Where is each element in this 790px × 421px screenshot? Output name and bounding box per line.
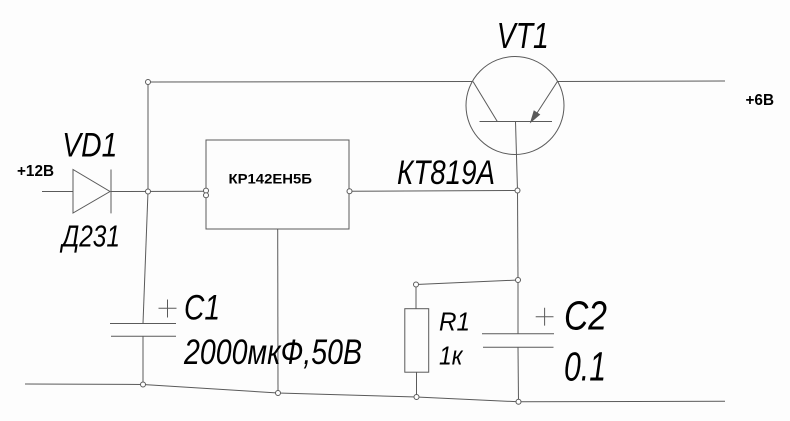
- svg-text:2000мкФ,50В: 2000мкФ,50В: [183, 332, 362, 372]
- wire: top rail right segment: [557, 80, 725, 83]
- wire: transistor base-bar down through circle to output node: [516, 122, 518, 191]
- wire: C2 bottom plate to bottom rail: [517, 347, 520, 402]
- node: diode junction: [146, 189, 151, 194]
- node: R1 top: [414, 282, 419, 287]
- resistor R1 body: [405, 309, 429, 373]
- node: bottom rail / C2: [516, 399, 521, 404]
- wire: R1 node slant to emitter line node: [416, 280, 518, 285]
- wire: output node down to R1/C2 node: [517, 191, 520, 281]
- svg-text:+6В: +6В: [746, 92, 775, 109]
- node: emitter line / R1 slant junction: [516, 278, 521, 283]
- transistor VT1 emitter slant: [532, 82, 558, 122]
- transistor VT1 collector slant: [473, 82, 497, 122]
- transistor VT1 emitter arrow: [531, 111, 540, 122]
- wire: diode junction down to C1 top plate: [143, 192, 148, 324]
- wire: bottom rail: [25, 384, 725, 402]
- wire: diode cathode to regulator input: [111, 190, 207, 192]
- svg-text:+12В: +12В: [17, 163, 54, 180]
- node: regulator input pin upper: [204, 188, 209, 193]
- node: top rail / left drop junction: [146, 80, 151, 85]
- transistor VT1 base bar: [480, 121, 553, 123]
- svg-text:C2: C2: [564, 293, 607, 339]
- capacitor C1 polarity plus: [159, 300, 177, 318]
- node: bottom rail / C1: [141, 382, 146, 387]
- capacitor C2 bottom plate: [483, 346, 554, 348]
- wire: R1 top node to resistor body: [415, 285, 417, 309]
- diode VD1: [73, 170, 111, 214]
- wire: resistor body to bottom rail: [416, 372, 418, 397]
- svg-text:Д231: Д231: [60, 218, 120, 253]
- svg-text:VT1: VT1: [497, 15, 549, 56]
- regulator U1 box КР142ЕН5Б: [206, 140, 349, 229]
- svg-text:КТ819А: КТ819А: [397, 154, 495, 192]
- svg-text:R1: R1: [439, 309, 470, 337]
- capacitor C1 bottom plate: [111, 335, 176, 337]
- capacitor C2 polarity plus: [536, 308, 554, 326]
- transistor VT1 body circle: [466, 57, 564, 155]
- node: bottom rail / R1: [414, 395, 419, 400]
- wire: node to C2 top plate: [517, 280, 519, 334]
- wire: left vertical from top rail to diode junction: [147, 82, 149, 192]
- svg-text:VD1: VD1: [62, 127, 117, 165]
- wire: +12V input to diode anode: [42, 191, 73, 193]
- capacitor C1 top plate: [110, 323, 176, 325]
- wire: regulator output to transistor emitter node: [350, 190, 518, 193]
- wire: C1 bottom plate to bottom rail: [142, 336, 144, 384]
- wire: regulator ground pin to bottom rail: [277, 229, 279, 393]
- node: bottom rail / regulator ground: [276, 391, 281, 396]
- node: emitter line / output wire junction: [515, 188, 520, 193]
- node: regulator output pin: [347, 189, 352, 194]
- wire: top rail left segment: [148, 81, 473, 84]
- svg-text:1к: 1к: [439, 343, 463, 371]
- node: regulator input pin lower: [204, 193, 209, 198]
- svg-text:C1: C1: [184, 288, 220, 327]
- capacitor C2 top plate: [482, 333, 554, 335]
- svg-text:0.1: 0.1: [564, 344, 606, 390]
- svg-text:КР142ЕН5Б: КР142ЕН5Б: [229, 171, 313, 187]
